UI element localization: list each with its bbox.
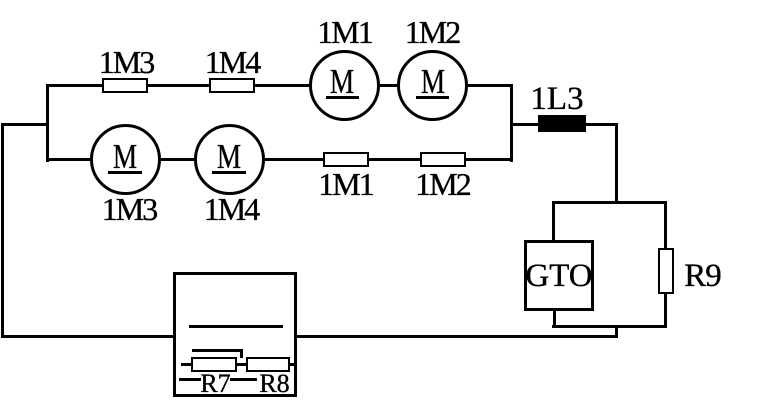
wire tap vertical bbox=[240, 349, 243, 358]
motor 1M2 M bbox=[401, 64, 463, 99]
box rheostat assembly bbox=[173, 272, 297, 397]
label 1M4 bottom bbox=[191, 193, 271, 225]
motor 1M2 bbox=[397, 50, 468, 121]
wire bottom branch seg5 bbox=[465, 158, 513, 161]
motor 1M3 bbox=[90, 124, 161, 195]
wire to inductor left bbox=[510, 123, 539, 126]
wire top branch seg2 bbox=[147, 84, 210, 87]
resistor 1M3 top bbox=[102, 78, 148, 93]
label 1M1 bottom bbox=[306, 168, 386, 200]
wire bottom branch seg4 bbox=[367, 158, 421, 161]
motor 1M2 underline bbox=[416, 96, 449, 99]
wire GTO top rail bbox=[552, 201, 667, 204]
wire bottom branch seg2 bbox=[158, 158, 196, 161]
label R9 bbox=[663, 260, 743, 293]
wire top branch seg1 bbox=[47, 84, 103, 87]
motor 1M4 M bbox=[198, 139, 260, 174]
resistor R7 bbox=[191, 357, 237, 372]
label 1M2 bottom bbox=[403, 168, 483, 200]
wire GTO bottom rail bbox=[552, 325, 667, 328]
wire rail to bottom connector bbox=[615, 325, 618, 338]
label R8 bbox=[256, 371, 293, 397]
label 1M4 top bbox=[192, 46, 272, 78]
motor 1M1 bbox=[309, 50, 380, 121]
label 1M1 bbox=[305, 16, 385, 48]
wire R7-R8 link bbox=[237, 363, 246, 366]
label 1L3 bbox=[517, 83, 597, 116]
resistor R9 bbox=[658, 248, 674, 294]
resistor 1M4 top bbox=[209, 78, 255, 93]
wire GTO bottom stub bbox=[553, 310, 556, 327]
motor 1M3 underline bbox=[108, 171, 142, 174]
wire R9 bottom stub bbox=[664, 293, 667, 327]
wire top branch seg4 bbox=[377, 84, 399, 87]
motor 1M1 M bbox=[311, 64, 373, 99]
wire GTO top drop bbox=[552, 201, 555, 241]
wire main bottom left segment bbox=[1, 335, 175, 338]
wire tap horizontal bbox=[192, 349, 243, 352]
wire inductor to corner bbox=[585, 123, 618, 126]
label 1M2 bbox=[392, 16, 472, 48]
wire left vertical bbox=[1, 123, 4, 338]
wire right junction vertical bbox=[510, 84, 513, 162]
wire lower tap line left bbox=[179, 378, 201, 381]
wire lower tap line mid bbox=[230, 378, 257, 381]
inductor 1L3 bbox=[538, 115, 586, 132]
GTO box U1 bbox=[524, 240, 594, 311]
wire main bottom right segment bbox=[295, 335, 618, 338]
motor 1M3 M bbox=[94, 139, 156, 174]
wire mid-left horizontal bbox=[1, 123, 48, 126]
wire inner line bbox=[189, 325, 283, 328]
motor 1M4 bbox=[194, 124, 265, 195]
wire bottom branch seg3 bbox=[262, 158, 324, 161]
label GTO bbox=[519, 260, 599, 293]
wire top branch seg3 bbox=[253, 84, 311, 87]
wire branch vertical bbox=[46, 84, 49, 162]
resistor 1M1 bottom bbox=[323, 152, 369, 167]
wire corner vertical to rail bbox=[615, 123, 618, 204]
resistor 1M2 bottom bbox=[420, 152, 466, 167]
label R7 bbox=[197, 371, 234, 397]
motor 1M1 underline bbox=[326, 96, 359, 99]
label 1M3 bottom bbox=[89, 193, 169, 225]
wire R8 right stub bbox=[290, 363, 297, 366]
label 1M3 top bbox=[86, 46, 166, 78]
resistor R8 bbox=[246, 357, 290, 372]
wire bottom branch seg1 bbox=[47, 158, 92, 161]
wire top branch seg5 bbox=[467, 84, 512, 87]
wire R7 left stub bbox=[181, 363, 191, 366]
motor 1M4 underline bbox=[212, 171, 246, 174]
wire R9 top drop bbox=[664, 201, 667, 250]
